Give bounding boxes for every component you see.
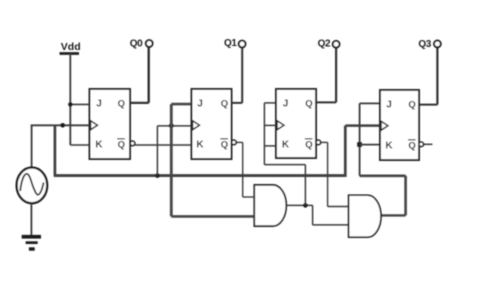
svg-text:K: K bbox=[95, 139, 103, 150]
svg-text:Q1: Q1 bbox=[224, 38, 237, 49]
wire AND1 feedback riser bbox=[304, 165, 306, 206]
wire Q2 riser bbox=[335, 48, 337, 103]
wire J1 input bbox=[70, 103, 89, 105]
node AND1 output junction bbox=[303, 203, 308, 208]
svg-text:Q: Q bbox=[408, 99, 415, 110]
svg-text:Q0: Q0 bbox=[130, 38, 143, 49]
terminal Q3 bbox=[418, 39, 440, 50]
wire AND2 input B bbox=[313, 224, 349, 226]
svg-text:J: J bbox=[386, 99, 392, 110]
flip-flop U2 bbox=[192, 89, 237, 159]
svg-text:Q: Q bbox=[221, 139, 228, 150]
flip-flop U3 bbox=[276, 89, 321, 158]
wire U4 Q output bbox=[419, 104, 437, 106]
wire Vdd stem bbox=[69, 54, 71, 146]
svg-text:K: K bbox=[385, 140, 393, 151]
terminal Q0 bbox=[130, 38, 153, 49]
flip-flop U1 bbox=[90, 89, 135, 159]
wire trunk to AND1 input B bbox=[171, 215, 254, 218]
wire J4/K4 vertical bbox=[359, 103, 361, 175]
svg-text:J: J bbox=[283, 98, 289, 109]
node Vdd-J1 junction bbox=[68, 102, 72, 106]
wire U3 Qbar stub bbox=[321, 141, 328, 143]
wire U4 Qbar stub bbox=[424, 143, 433, 145]
wire AND1 input A bbox=[243, 196, 255, 198]
wire J3 input bbox=[264, 102, 276, 104]
wire clock branch U2 vertical bbox=[156, 126, 158, 176]
wire U3 clock input bbox=[264, 124, 276, 126]
wire J4 input bbox=[360, 102, 380, 104]
svg-text:Q: Q bbox=[118, 139, 125, 150]
wire U2 Qbar drop bbox=[242, 142, 244, 197]
wire U3 Qbar drop bbox=[327, 142, 329, 206]
node bus-U2 junction bbox=[155, 173, 160, 178]
wire AND1 output bbox=[286, 204, 313, 206]
terminal Q1 bbox=[224, 38, 246, 49]
wire clock to U4 bbox=[345, 124, 380, 127]
clock source V1 bbox=[17, 168, 48, 204]
wire bus riser to U4 bbox=[344, 126, 347, 177]
wire J3/K3 vertical bbox=[263, 103, 265, 165]
wire Q1 riser bbox=[241, 48, 243, 103]
wire clock to U1 bbox=[31, 124, 90, 126]
wire AND1 feedback horizontal bbox=[264, 164, 305, 166]
wire source to ground bbox=[30, 203, 32, 235]
ground bbox=[22, 235, 41, 251]
svg-text:K: K bbox=[196, 139, 204, 150]
svg-text:K: K bbox=[282, 139, 290, 150]
AND gate A1 bbox=[254, 185, 286, 226]
flip-flop U4 bbox=[380, 90, 424, 160]
node K4 junction bbox=[357, 142, 362, 147]
svg-text:Q: Q bbox=[305, 139, 312, 150]
wire U2 Q output bbox=[232, 102, 243, 104]
wire Q0 riser bbox=[147, 47, 149, 103]
terminal Q2 bbox=[318, 38, 340, 49]
svg-text:Q3: Q3 bbox=[418, 39, 431, 50]
wire AND2 input A bbox=[328, 206, 349, 208]
wire U1 Qbar to K2 bbox=[135, 144, 192, 146]
wire AND2 feedback horizontal bbox=[360, 175, 406, 178]
wire K1 input bbox=[70, 144, 89, 146]
wire U1 Q output bbox=[130, 102, 149, 104]
wire AND1 out to AND2 drop bbox=[312, 205, 314, 225]
wire U2 Qbar stub bbox=[236, 141, 243, 143]
wire Q3 riser bbox=[436, 47, 438, 104]
svg-text:J: J bbox=[96, 98, 102, 109]
wire AND2 out riser bbox=[404, 176, 407, 216]
wire K4 input bbox=[360, 144, 380, 146]
wire trunk J2/AND1 vertical bbox=[170, 104, 173, 216]
wire K3 input bbox=[264, 145, 276, 147]
svg-text:Q: Q bbox=[305, 98, 312, 109]
svg-text:Q2: Q2 bbox=[318, 38, 331, 49]
svg-text:Q: Q bbox=[118, 98, 125, 109]
svg-text:Vdd: Vdd bbox=[61, 41, 81, 53]
Vdd bar bbox=[60, 52, 80, 55]
svg-text:J: J bbox=[197, 98, 203, 109]
node clock junction bbox=[60, 123, 65, 128]
wire clock branch U2 horizontal bbox=[157, 125, 191, 127]
node clock-trunk junction bbox=[169, 123, 174, 128]
wire U3 Q output bbox=[316, 101, 336, 103]
wire clock bus bbox=[54, 174, 346, 177]
wire AND2 output bbox=[381, 214, 406, 216]
wire clock riser from source bbox=[31, 125, 33, 168]
wire J2 input bbox=[171, 103, 191, 106]
AND gate A2 bbox=[349, 195, 381, 237]
svg-text:Q: Q bbox=[408, 140, 415, 151]
svg-text:Q: Q bbox=[221, 98, 228, 109]
wire clock bus drop bbox=[54, 125, 57, 175]
